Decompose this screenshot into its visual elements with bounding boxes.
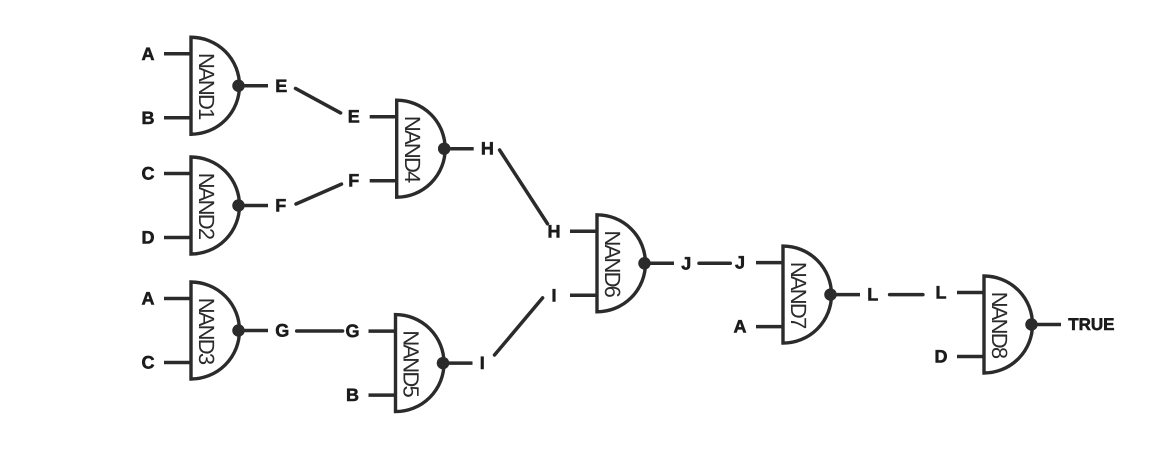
svg-text:A: A (734, 317, 747, 337)
svg-text:B: B (142, 108, 155, 128)
svg-text:H: H (481, 139, 494, 159)
svg-text:TRUE: TRUE (1068, 315, 1114, 334)
wire: B stub to NAND1 pin 2 (164, 116, 191, 120)
svg-text:D: D (935, 347, 948, 367)
NAND6 output bubble (638, 257, 651, 270)
svg-text:NAND3: NAND3 (194, 298, 219, 365)
wire: net H (NAND4 to NAND6) (500, 150, 548, 224)
svg-text:I: I (551, 285, 556, 305)
wire: NAND2 output stub (245, 204, 269, 208)
wire: J stub to NAND7 pin 1 (756, 261, 783, 265)
wire: NAND1 output stub (245, 84, 269, 88)
NAND2 output bubble (232, 199, 245, 212)
svg-text:L: L (867, 285, 878, 305)
svg-text:NAND6: NAND6 (600, 231, 625, 298)
nand gate NAND6 body (597, 215, 645, 312)
wire: E stub to NAND4 pin 1 (370, 115, 397, 119)
wire: D stub to NAND8 pin 2 (957, 355, 984, 359)
wire: B stub to NAND5 pin 2 (369, 393, 396, 397)
nand gate NAND5 body (396, 315, 445, 412)
wire: D stub to NAND2 pin 2 (164, 236, 191, 240)
wire: I stub to NAND6 pin 2 (570, 294, 597, 298)
wire: C stub to NAND2 pin 1 (164, 172, 191, 176)
wire: NAND8 output stub (1038, 323, 1062, 327)
wire: net I (NAND5 to NAND6) (495, 298, 543, 355)
wire: F stub to NAND4 pin 2 (370, 179, 397, 183)
svg-text:J: J (681, 253, 691, 273)
wire: net E (NAND1 to NAND4) (296, 88, 341, 113)
nand gate NAND1 body (191, 37, 240, 134)
wire: C stub to NAND3 pin 2 (164, 361, 191, 365)
svg-text:E: E (275, 76, 287, 96)
NAND5 output bubble (437, 357, 450, 370)
svg-text:NAND1: NAND1 (194, 53, 219, 120)
svg-text:I: I (480, 353, 485, 373)
wire: NAND4 output stub (450, 147, 474, 151)
wire: L stub to NAND8 pin 1 (957, 291, 984, 295)
NAND4 output bubble (438, 142, 451, 155)
svg-text:NAND8: NAND8 (987, 292, 1012, 359)
wire: A stub to NAND1 pin 1 (164, 52, 191, 56)
nand gate NAND7 body (783, 246, 831, 343)
wire: NAND5 output stub (449, 361, 473, 365)
NAND3 output bubble (232, 324, 245, 337)
wire: H stub to NAND6 pin 1 (570, 230, 597, 234)
svg-text:E: E (348, 107, 360, 127)
NAND8 output bubble (1025, 318, 1038, 331)
wire: net J (NAND6 to NAND7) (699, 262, 730, 266)
wire: net L (NAND7 to NAND8) (890, 293, 923, 297)
svg-text:NAND2: NAND2 (194, 173, 219, 240)
svg-text:NAND5: NAND5 (399, 330, 424, 397)
wire: NAND7 output stub (837, 293, 861, 297)
NAND1 output bubble (232, 80, 245, 93)
svg-text:F: F (348, 171, 359, 191)
wire: net F (NAND2 to NAND4) (296, 184, 342, 204)
svg-text:G: G (275, 321, 289, 341)
svg-text:A: A (142, 289, 155, 309)
svg-text:NAND7: NAND7 (786, 262, 811, 329)
nand gate NAND2 body (191, 157, 240, 254)
wire: A stub to NAND7 pin 2 (756, 325, 783, 329)
wire: NAND6 output stub (651, 262, 675, 266)
nand gate NAND4 body (397, 100, 445, 197)
svg-text:J: J (735, 253, 745, 273)
svg-text:D: D (142, 228, 155, 248)
svg-text:G: G (345, 321, 359, 341)
svg-text:NAND4: NAND4 (400, 116, 425, 183)
svg-text:L: L (936, 283, 947, 303)
wire: NAND3 output stub (245, 329, 269, 333)
svg-text:A: A (142, 44, 155, 64)
svg-text:C: C (142, 164, 155, 184)
svg-text:F: F (275, 196, 286, 216)
wire: A stub to NAND3 pin 1 (164, 297, 191, 301)
wire: G stub to NAND5 pin 1 (369, 329, 396, 333)
nand gate NAND8 body (984, 276, 1033, 373)
svg-text:H: H (548, 221, 561, 241)
NAND7 output bubble (824, 288, 837, 301)
nand gate NAND3 body (191, 282, 240, 379)
svg-text:B: B (346, 385, 359, 405)
svg-text:C: C (142, 353, 155, 373)
wire: net G (NAND3 to NAND5) (297, 329, 343, 333)
